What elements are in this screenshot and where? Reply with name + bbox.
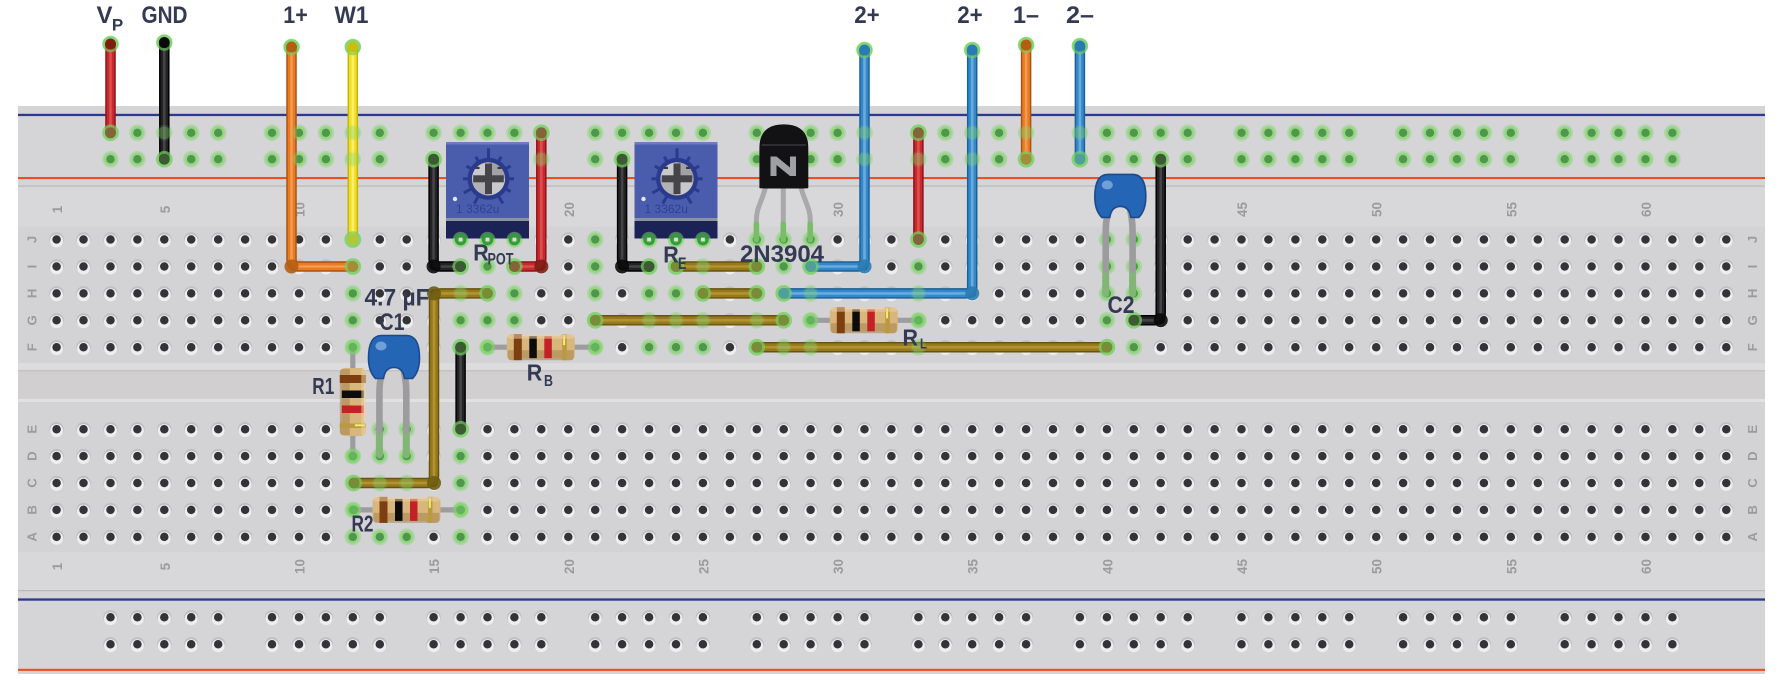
svg-text:4.7 µF: 4.7 µF [365,285,430,312]
label 2+ (first) [854,2,880,29]
svg-text:15: 15 [427,559,442,574]
svg-text:G: G [25,315,40,325]
resistor R2 [346,497,468,523]
wire 2+ (blue, first) [804,42,873,273]
label R_L [903,324,927,352]
svg-text:F: F [25,343,40,351]
trimmer potentiometer R_POT [446,142,529,247]
svg-text:E: E [678,255,687,273]
label V_P [96,2,123,34]
wire 2- (blue) [1072,38,1088,166]
svg-text:40: 40 [1100,559,1115,574]
svg-text:C: C [1745,478,1760,488]
transistor Q1 2N3904 [756,124,810,240]
resistor R1 [340,340,366,464]
wire olive jumper H25-H27 [696,286,764,300]
svg-text:R: R [473,240,489,266]
label 1+ [283,2,308,29]
svg-text:GND: GND [142,2,188,29]
wire V_P (red, scope V+) [103,36,119,140]
svg-text:1+: 1+ [283,2,308,29]
svg-text:55: 55 [1504,202,1519,217]
capacitor C2 [1095,174,1146,294]
label W1 [335,2,369,29]
label 2- [1066,2,1094,29]
svg-text:R: R [527,360,543,386]
svg-text:C: C [25,478,40,488]
wire olive jumper F27-F40 [750,340,1114,354]
svg-text:25: 25 [696,559,711,574]
svg-text:A: A [1745,532,1760,542]
svg-text:60: 60 [1639,202,1654,217]
svg-text:B: B [25,505,40,515]
wire black jumper rail to G41 [1127,152,1168,327]
svg-text:R: R [663,241,679,267]
resistor R_B [480,334,602,360]
svg-text:5: 5 [158,205,173,213]
svg-text:1–: 1– [1013,2,1039,29]
label 1- [1013,2,1039,29]
svg-text:60: 60 [1639,559,1654,574]
svg-text:C2: C2 [1108,292,1135,319]
svg-text:L: L [920,336,927,353]
svg-text:2+: 2+ [854,2,880,29]
capacitor C1 4.7uF [369,336,420,456]
label R_B [527,360,553,391]
svg-text:B: B [544,373,553,390]
label GND [142,2,188,29]
connected-net hole highlights (green overlay) [103,125,1681,545]
wire red jumper rail to J33 [911,126,925,247]
svg-text:R2: R2 [352,511,374,537]
label R1 [312,373,334,399]
label 2N3904 [740,241,825,268]
svg-text:V: V [96,2,112,29]
svg-text:I: I [25,265,40,269]
svg-text:A: A [25,532,40,542]
svg-text:1: 1 [50,562,65,570]
wire 2+ (blue, second) [777,42,980,300]
wire olive jumper G21-G28 [588,313,791,327]
label 2+ (second) [957,2,983,29]
svg-text:R: R [903,324,919,350]
svg-text:F: F [1745,343,1760,351]
label 4.7 uF / C1 [365,285,430,337]
svg-text:R1: R1 [312,373,334,399]
svg-text:45: 45 [1235,559,1250,574]
svg-text:I: I [1745,265,1760,269]
wire black jumper F16-E16 [454,340,468,436]
wire black jumper rail to R_POT pin1 [427,152,468,273]
svg-text:W1: W1 [335,2,369,29]
trimmer potentiometer R_E [635,142,718,247]
label R2 [352,511,374,537]
svg-text:30: 30 [831,202,846,217]
svg-text:C1: C1 [380,309,405,336]
svg-text:2+: 2+ [957,2,983,29]
svg-text:20: 20 [562,202,577,217]
svg-text:55: 55 [1504,559,1519,574]
wire olive jumper I24-I27 [669,260,764,274]
svg-text:POT: POT [488,250,514,269]
resistor R_L [803,307,926,333]
wire W1 (yellow) [345,39,361,246]
wire black jumper rail to R_E pin1 [615,152,656,273]
wire 1- (orange) [1018,37,1034,166]
label C2 [1108,292,1135,319]
label R_POT [473,240,514,269]
svg-text:50: 50 [1370,202,1385,217]
svg-text:D: D [25,451,40,461]
label R_E [663,241,686,273]
svg-text:J: J [1745,236,1760,243]
svg-text:J: J [25,236,40,243]
svg-text:E: E [1745,425,1760,434]
svg-text:E: E [25,425,40,434]
svg-text:H: H [25,289,40,299]
svg-text:B: B [1745,505,1760,515]
svg-text:1: 1 [50,205,65,213]
wire olive jumper H17-C12 [347,286,495,490]
svg-text:5: 5 [158,562,173,570]
wire red jumper rail to R_POT pin3 [507,126,548,274]
svg-text:45: 45 [1235,202,1250,217]
svg-text:G: G [1745,315,1760,325]
svg-text:20: 20 [562,559,577,574]
svg-text:10: 10 [293,559,308,574]
svg-text:30: 30 [831,559,846,574]
svg-text:H: H [1745,289,1760,299]
svg-text:1 3362u: 1 3362u [645,202,688,216]
svg-text:50: 50 [1370,559,1385,574]
wire GND (black) [157,35,173,167]
svg-text:2N3904: 2N3904 [740,241,825,268]
wire 1+ (orange) [284,39,360,273]
svg-text:35: 35 [966,559,981,574]
svg-text:2–: 2– [1066,2,1094,29]
svg-text:D: D [1745,451,1760,461]
svg-text:P: P [112,15,123,34]
svg-text:1 3362u: 1 3362u [456,202,499,216]
